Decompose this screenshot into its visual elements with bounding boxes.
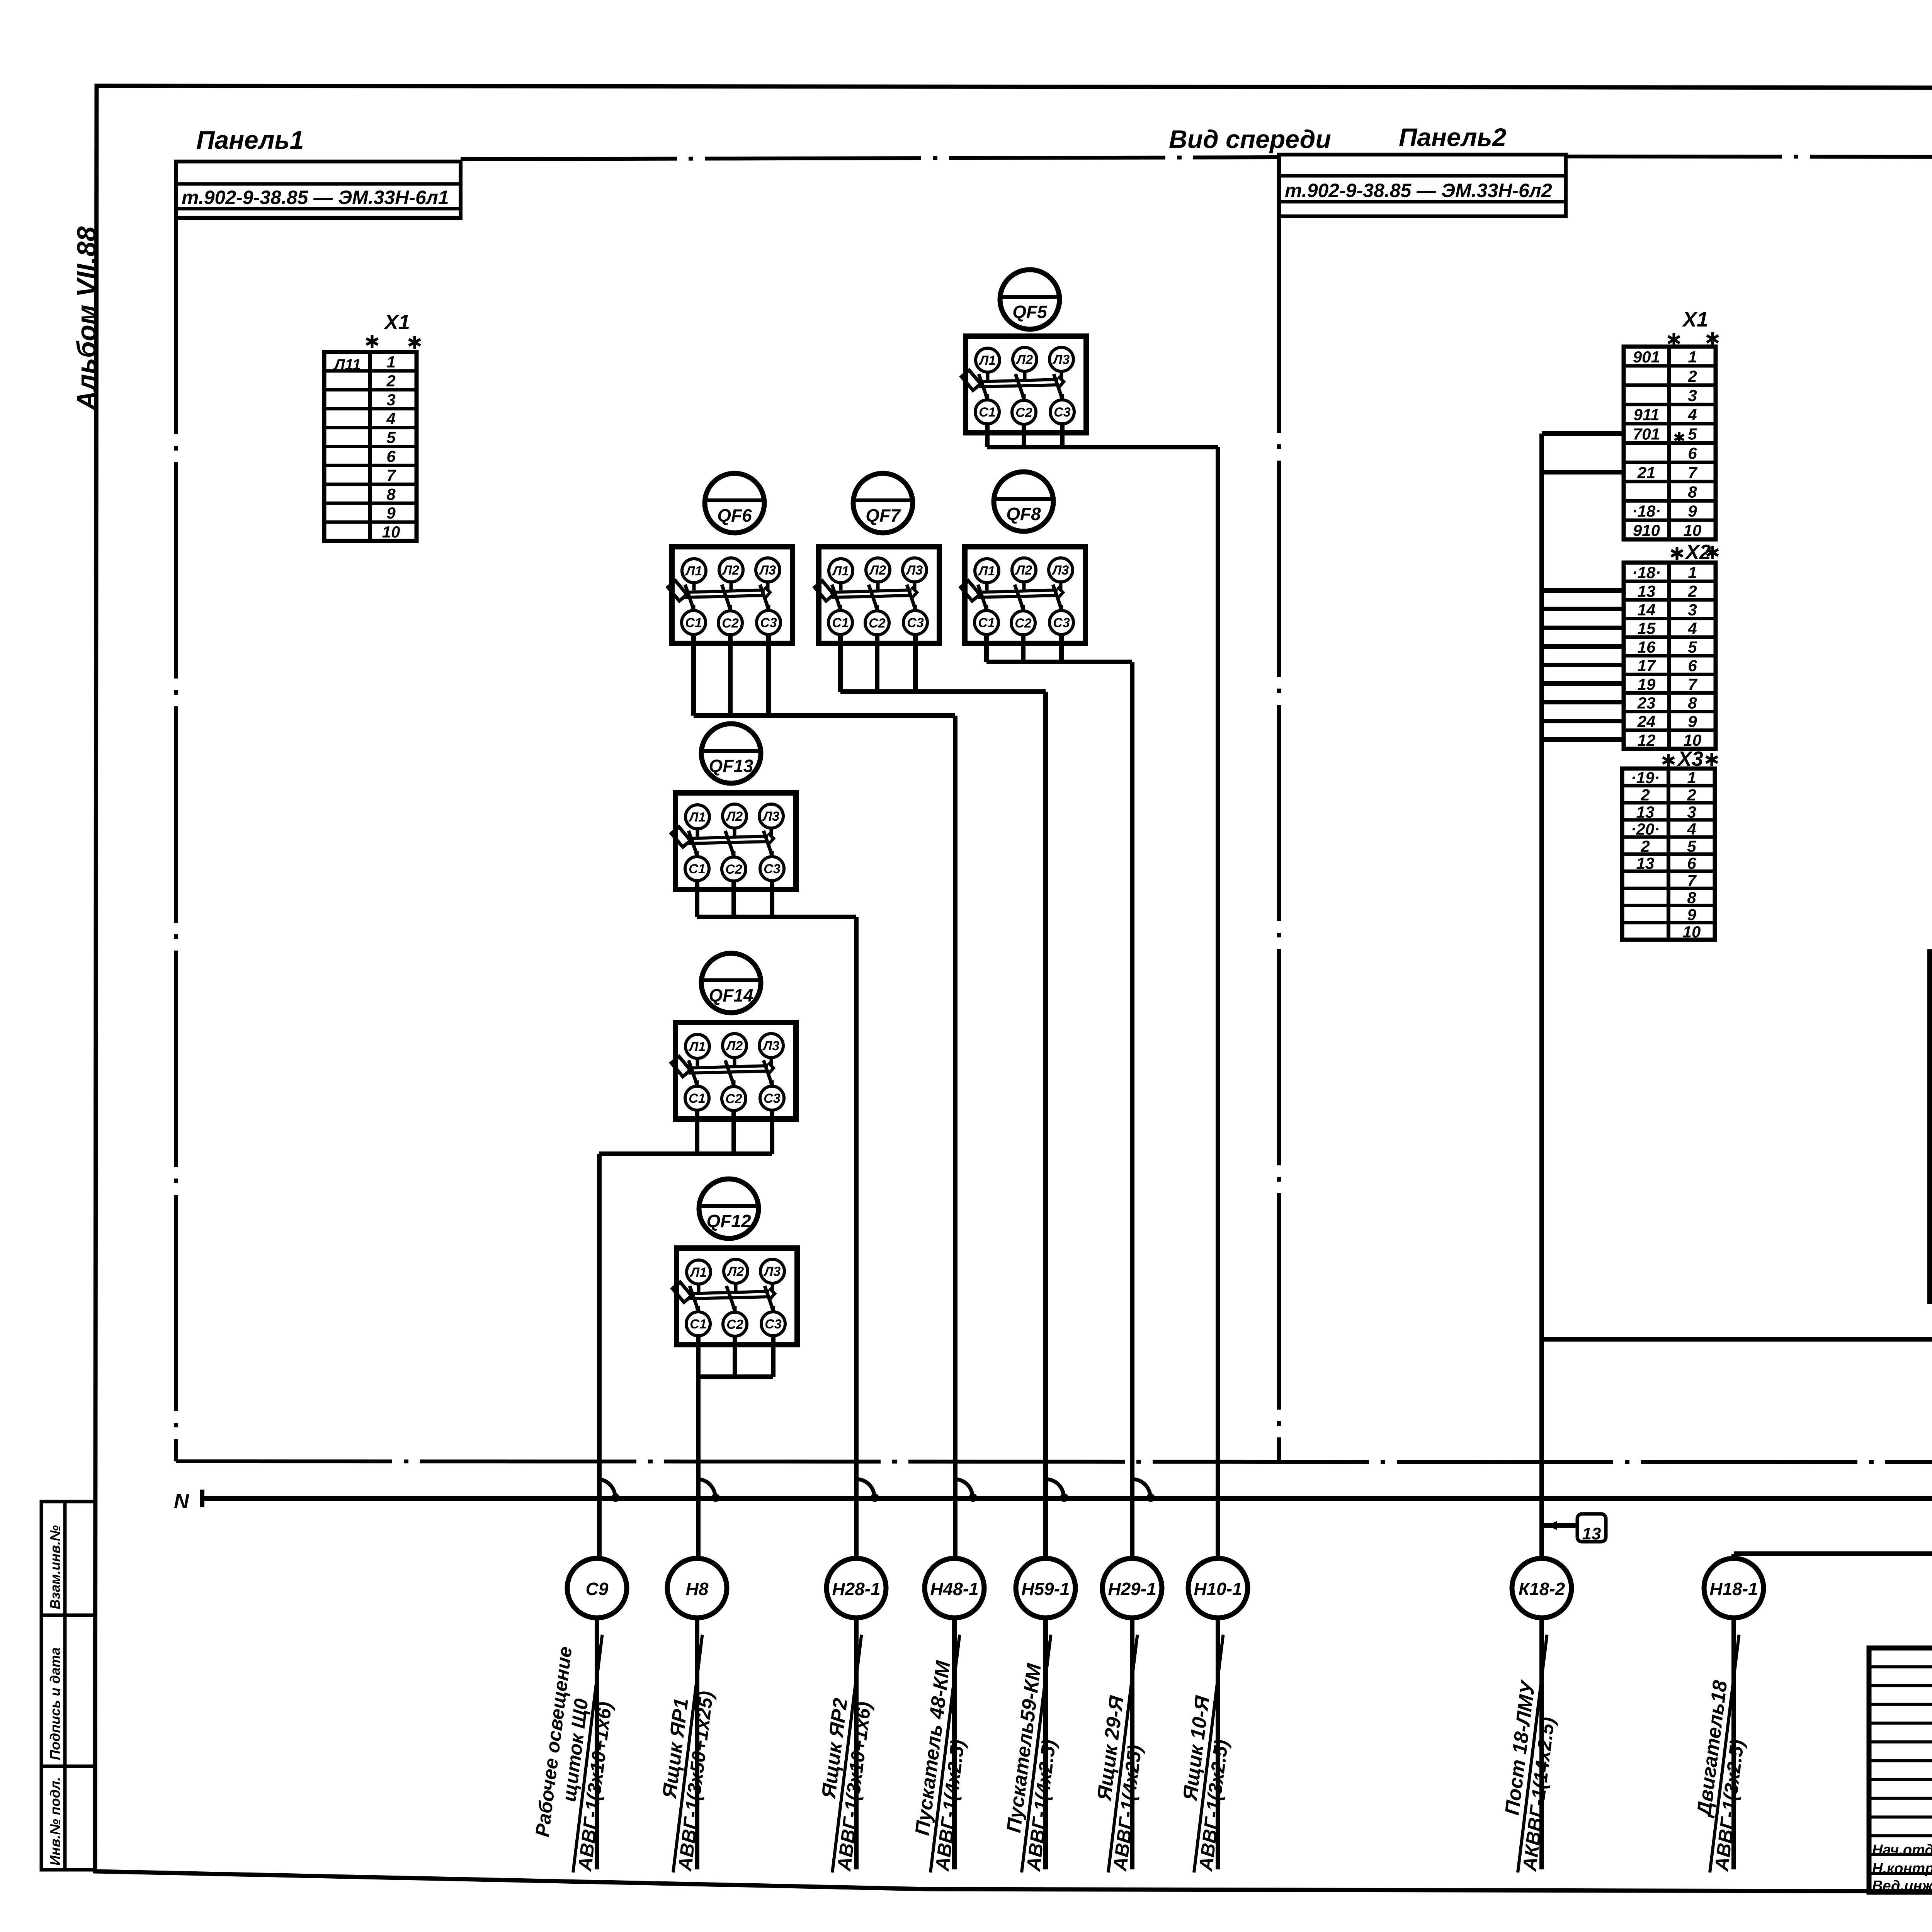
circuit breaker QF14 pole box — [671, 1022, 796, 1119]
svg-text:Вид спереди: Вид спереди — [1169, 125, 1331, 153]
cable circle Н28-1 — [827, 1558, 886, 1618]
svg-text:8: 8 — [386, 485, 396, 503]
cable Н59-1 label — [998, 1632, 1073, 1875]
svg-text:Х1: Х1 — [1682, 308, 1708, 331]
cable circle С9 — [567, 1558, 627, 1618]
svg-text:9: 9 — [1687, 906, 1696, 924]
cable Н18-1 tail wire — [1731, 1618, 1736, 1869]
wire bundle from X1/X2 to cable K18-2 — [1539, 434, 1544, 1558]
svg-text:7: 7 — [1687, 871, 1697, 889]
svg-text:10: 10 — [382, 523, 400, 541]
svg-text:10: 10 — [1684, 521, 1702, 539]
wire X1 row5 stub — [1542, 431, 1624, 436]
svg-text:9: 9 — [1688, 502, 1697, 520]
svg-text:QF12: QF12 — [706, 1211, 751, 1231]
wire QF6 to cable H48-1 — [691, 634, 696, 716]
svg-text:23: 23 — [1637, 694, 1656, 712]
svg-text:С9: С9 — [586, 1579, 609, 1599]
svg-text:3: 3 — [1687, 803, 1696, 821]
svg-text:QF14: QF14 — [709, 985, 753, 1005]
terminal block X3 (panel 2) — [1663, 754, 1674, 767]
svg-text:Инв.№ подл.: Инв.№ подл. — [47, 1777, 63, 1866]
svg-text:2: 2 — [1687, 582, 1697, 600]
svg-text:Х2: Х2 — [1684, 541, 1711, 564]
svg-text:т.902-9-38.85 — ЭМ.33Н-6л2: т.902-9-38.85 — ЭМ.33Н-6л2 — [1285, 180, 1552, 201]
svg-text:4: 4 — [386, 410, 395, 428]
cable Н8 tail wire — [695, 1618, 699, 1869]
svg-text:2: 2 — [1687, 786, 1696, 804]
svg-text:1: 1 — [1688, 563, 1697, 582]
svg-text:Взам.инв.№: Взам.инв.№ — [47, 1525, 63, 1609]
svg-text:3: 3 — [1688, 601, 1697, 619]
circuit breaker QF13 designation circle — [701, 724, 761, 783]
svg-text:QF7: QF7 — [866, 505, 901, 526]
svg-text:Х1: Х1 — [383, 311, 410, 334]
svg-text:QF5: QF5 — [1012, 302, 1048, 322]
cable Н10-1 label — [1170, 1632, 1245, 1875]
svg-text:8: 8 — [1688, 694, 1697, 712]
svg-text:5: 5 — [386, 429, 396, 447]
svg-text:1: 1 — [1688, 348, 1697, 366]
svg-text:К18-2: К18-2 — [1519, 1579, 1565, 1599]
cable circle К18-2 — [1512, 1558, 1571, 1618]
svg-text:7: 7 — [386, 466, 396, 484]
wire QF13 to cable H28-1 — [695, 880, 699, 917]
circuit breaker QF7 designation circle — [853, 473, 913, 533]
cable circle Н59-1 — [1016, 1558, 1075, 1618]
svg-text:911: 911 — [1634, 406, 1660, 424]
svg-text:8: 8 — [1687, 888, 1696, 906]
svg-text:8: 8 — [1688, 483, 1697, 501]
terminal block X2 (panel 2) — [1671, 547, 1683, 560]
circuit breaker QF13 pole box — [671, 793, 796, 889]
cable Н8 label — [649, 1632, 724, 1875]
cable К18-2 label — [1494, 1632, 1569, 1875]
circuit breaker QF6 pole box — [668, 547, 793, 643]
svg-text:3: 3 — [1688, 386, 1697, 405]
svg-text:13: 13 — [1636, 854, 1655, 872]
cable С9 tail wire — [595, 1618, 599, 1869]
panel 1 left boundary dash-dot — [174, 218, 178, 1461]
wire QF5 to cable H10-1 — [985, 423, 990, 447]
svg-text:17: 17 — [1638, 656, 1656, 675]
circuit breaker QF12 designation circle — [699, 1179, 759, 1238]
svg-text:10: 10 — [1683, 923, 1701, 941]
terminal X1 panel1 asterisk marks — [366, 335, 378, 348]
cable circle Н8 — [667, 1558, 727, 1618]
circuit breaker QF5 pole box — [961, 336, 1086, 433]
svg-text:6: 6 — [1687, 854, 1696, 872]
svg-text:4: 4 — [1687, 820, 1696, 838]
svg-text:Нач.отд.: Нач.отд. — [1872, 1842, 1932, 1858]
svg-text:Панель1: Панель1 — [196, 126, 304, 154]
wire QF7 to cable H59-1 — [838, 634, 843, 692]
svg-text:Н48-1: Н48-1 — [930, 1579, 978, 1599]
terminal X1 panel2 asterisk at row 5 — [1675, 432, 1684, 443]
svg-text:5: 5 — [1688, 425, 1697, 443]
svg-text:1: 1 — [386, 353, 395, 371]
svg-text:14: 14 — [1638, 601, 1656, 619]
svg-text:19: 19 — [1638, 675, 1656, 693]
svg-text:4: 4 — [1687, 619, 1697, 638]
terminal block X1 (panel 1) — [324, 352, 417, 541]
svg-text:Н29-1: Н29-1 — [1108, 1579, 1156, 1599]
cable circle Н18-1 — [1704, 1558, 1764, 1618]
svg-text:5: 5 — [1688, 638, 1697, 656]
svg-text:Н59-1: Н59-1 — [1021, 1579, 1070, 1599]
branch wire to X1 strip cell 2 — [1542, 1337, 1932, 1342]
cable Н29-1 label — [1084, 1632, 1159, 1875]
svg-text:т.902-9-38.85 — ЭМ.33Н-6л1: т.902-9-38.85 — ЭМ.33Н-6л1 — [182, 187, 449, 208]
svg-text:·19·: ·19· — [1631, 769, 1660, 787]
wire QF12 to cable H8 — [696, 1335, 701, 1377]
svg-text:15: 15 — [1638, 619, 1656, 638]
svg-text:2: 2 — [1640, 786, 1650, 804]
neutral bus N — [202, 1496, 1932, 1501]
svg-text:3: 3 — [386, 391, 395, 409]
cable circle Н10-1 — [1188, 1558, 1248, 1618]
svg-text:1: 1 — [1687, 769, 1696, 787]
svg-text:6: 6 — [386, 447, 396, 466]
svg-text:901: 901 — [1633, 348, 1660, 366]
svg-text:7: 7 — [1688, 675, 1697, 693]
circuit breaker QF7 pole box — [815, 547, 939, 643]
cable Н48-1 tail wire — [952, 1618, 957, 1869]
svg-text:9: 9 — [1688, 713, 1697, 731]
svg-text:4: 4 — [1687, 406, 1697, 424]
circuit breaker QF6 designation circle — [705, 473, 764, 533]
svg-text:Н18-1: Н18-1 — [1709, 1579, 1758, 1599]
svg-text:Н28-1: Н28-1 — [832, 1579, 880, 1599]
cable Н29-1 tail wire — [1130, 1618, 1134, 1869]
wire QF8 to cable H29-1 — [984, 634, 989, 662]
cable circle Н48-1 — [925, 1558, 984, 1618]
svg-text:N: N — [174, 1490, 189, 1513]
svg-text:Н10-1: Н10-1 — [1194, 1579, 1242, 1599]
wire QF14 to cable C9 — [695, 1110, 699, 1154]
circuit breaker QF5 designation circle — [1000, 270, 1060, 329]
cable С9 label — [527, 1629, 624, 1875]
panels bottom boundary dash-dot — [176, 1461, 1932, 1462]
svg-text:16: 16 — [1638, 638, 1656, 656]
svg-text:Альбом VII.88: Альбом VII.88 — [71, 226, 102, 411]
circuit breaker QF14 designation circle — [701, 953, 761, 1013]
motor starter block B5130-3874 UhL4 outline — [1930, 952, 1932, 1301]
svg-text:2: 2 — [1640, 837, 1650, 855]
svg-text:Панель2: Панель2 — [1399, 123, 1507, 151]
svg-text:10: 10 — [1684, 731, 1702, 749]
svg-text:·18·: ·18· — [1632, 563, 1661, 582]
svg-text:6: 6 — [1688, 656, 1697, 675]
svg-text:9: 9 — [386, 504, 396, 522]
title block row lines — [1869, 1665, 1932, 1668]
svg-text:910: 910 — [1633, 521, 1660, 539]
svg-text:13: 13 — [1638, 582, 1656, 600]
svg-text:24: 24 — [1637, 713, 1656, 731]
cable Н59-1 tail wire — [1043, 1618, 1048, 1869]
cable Н28-1 tail wire — [854, 1618, 859, 1869]
svg-text:5: 5 — [1687, 837, 1696, 855]
svg-text:Н8: Н8 — [686, 1579, 709, 1599]
panel 2 designation box — [1279, 155, 1566, 216]
panel boundary top dash-dot line — [461, 157, 1279, 159]
svg-text:Вед.инж: Вед.инж — [1872, 1878, 1932, 1894]
circuit breaker QF8 designation circle — [994, 472, 1053, 531]
bus junction arcs — [597, 1479, 615, 1497]
left margin stamp table — [41, 1502, 95, 1870]
svg-text:QF13: QF13 — [709, 756, 753, 776]
svg-text:12: 12 — [1638, 731, 1656, 749]
title block outline — [1869, 1648, 1932, 1892]
svg-text:2: 2 — [1687, 367, 1697, 385]
svg-text:·20·: ·20· — [1631, 820, 1660, 838]
svg-text:21: 21 — [1637, 463, 1656, 481]
svg-text:QF8: QF8 — [1006, 504, 1041, 524]
cable Н28-1 label — [808, 1632, 883, 1875]
svg-text:Л11: Л11 — [333, 356, 361, 373]
panel 2 left boundary dash-dot — [1277, 216, 1281, 1462]
cable circle Н29-1 — [1102, 1558, 1162, 1618]
cable Н10-1 tail wire — [1216, 1618, 1220, 1869]
svg-text:QF6: QF6 — [717, 505, 752, 526]
svg-text:Н.контр: Н.контр — [1872, 1861, 1932, 1877]
cable К18-2 tail wire — [1539, 1618, 1544, 1869]
wire stubs X2 rows — [1542, 588, 1624, 593]
svg-text:·18·: ·18· — [1632, 502, 1661, 520]
svg-text:13: 13 — [1636, 803, 1655, 821]
svg-text:701: 701 — [1633, 425, 1660, 443]
svg-text:2: 2 — [386, 372, 395, 390]
svg-text:7: 7 — [1688, 463, 1697, 481]
marker box 13 — [1542, 1523, 1577, 1528]
svg-text:Подпись и дата: Подпись и дата — [47, 1647, 63, 1760]
svg-text:13: 13 — [1582, 1524, 1601, 1543]
panel 1 designation box — [176, 162, 461, 218]
wire X1 row7 stub — [1542, 470, 1624, 474]
svg-text:6: 6 — [1688, 444, 1697, 462]
cable Н48-1 label — [906, 1632, 981, 1875]
circuit breaker QF8 pole box — [961, 547, 1085, 643]
circuit breaker QF12 pole box — [672, 1248, 797, 1345]
cable Н18-1 label — [1686, 1632, 1761, 1875]
